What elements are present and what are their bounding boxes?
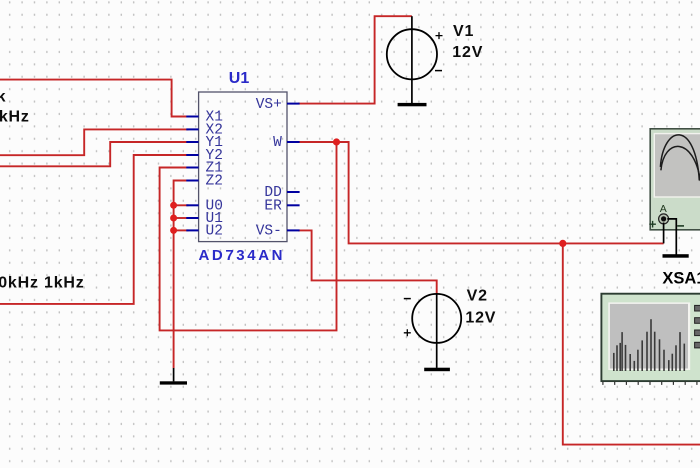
pin U2: [186, 224, 223, 240]
svg-text:Z2: Z2: [206, 174, 223, 190]
pin X1: [186, 110, 223, 126]
svg-text:k: k: [0, 88, 6, 105]
label V2 value 12V: [465, 309, 496, 326]
ground bar for XSA1: [663, 254, 689, 258]
label kHz: [0, 108, 30, 125]
ground under V2: [424, 368, 450, 372]
pin X2: [186, 123, 223, 139]
ground for Z2/U0/U1/U2 net: [160, 368, 187, 385]
svg-text:AD734AN: AD734AN: [199, 247, 286, 264]
pin Z1: [186, 161, 223, 177]
wire W output: [298, 142, 664, 243]
label XSA1: [662, 269, 700, 287]
junction U2: [170, 227, 177, 234]
pin VS-: [256, 224, 300, 240]
wire stub U1: [174, 217, 189, 219]
junction U1: [170, 215, 177, 222]
terminal socket: [649, 214, 684, 228]
pin Y1: [186, 135, 223, 151]
junction node W: [333, 138, 340, 145]
wire net X2 feed: [0, 129, 189, 155]
lead from - terminal to ground: [667, 219, 676, 255]
wire net X1 feed: [0, 80, 189, 117]
svg-text:XSA1: XSA1: [662, 269, 700, 287]
wire Z2 to ground: [174, 181, 189, 369]
pin ER: [264, 199, 299, 215]
curve trace 1: [660, 135, 699, 181]
terminal tabs right edge: [695, 305, 700, 348]
wire stub U0: [174, 204, 189, 206]
label 1k (cut off at left edge): [0, 88, 6, 105]
pin Y2: [186, 148, 223, 164]
pin W: [273, 135, 300, 151]
junction on W branch: [559, 240, 566, 247]
ground under V1: [398, 103, 427, 106]
IC U1 AD734AN body: [199, 92, 287, 242]
label AD734AN: [199, 247, 286, 264]
svg-text:W: W: [273, 135, 282, 151]
pin U0: [186, 199, 223, 215]
wire VS+ to V1: [298, 16, 412, 103]
wire branch to bottom right: [563, 243, 700, 444]
label A terminal: [660, 203, 667, 215]
pin Z2: [186, 174, 223, 190]
voltage source V2: [404, 294, 461, 368]
lead from + terminal down to W wire: [663, 223, 665, 244]
label V1 value 12V: [452, 44, 483, 61]
curve trace 2: [661, 146, 700, 181]
label V2: [467, 288, 488, 305]
svg-text:kHz: kHz: [0, 108, 30, 125]
svg-text:VS+: VS+: [256, 97, 282, 113]
wire VS- to V2: [298, 230, 437, 294]
junction U0: [170, 202, 177, 209]
spectrum bars: [614, 319, 685, 371]
pin VS+: [256, 97, 300, 113]
svg-text:V1: V1: [453, 23, 474, 40]
svg-text:12V: 12V: [452, 44, 483, 61]
svg-text:12V: 12V: [465, 309, 496, 326]
wire net Y2 feed: [0, 155, 189, 304]
svg-text:ER: ER: [264, 199, 282, 215]
svg-text:U2: U2: [206, 224, 223, 240]
label U1: [229, 70, 250, 87]
instrument XSA1 (top, response-curve icon): [650, 129, 700, 230]
label V1: [453, 23, 474, 40]
wire net Y1 feed: [0, 142, 189, 166]
voltage source V1: [387, 16, 443, 103]
terminal ticks bottom edge: [603, 382, 697, 385]
instrument spectrum display (bottom right): [601, 294, 700, 381]
svg-text:0kHz 1kHz: 0kHz 1kHz: [0, 274, 85, 291]
wire stub U2: [174, 229, 189, 231]
label 0kHz 1kHz: [0, 274, 85, 291]
svg-text:V2: V2: [467, 288, 488, 305]
svg-text:VS-: VS-: [256, 224, 282, 240]
svg-text:U1: U1: [229, 70, 250, 87]
pin U1: [186, 211, 223, 227]
pin DD: [264, 185, 299, 201]
wire Z1 to W node: [160, 142, 337, 330]
